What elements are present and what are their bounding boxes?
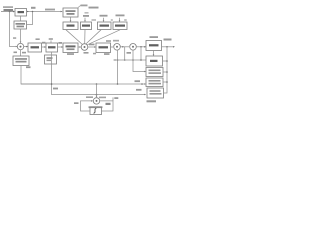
wire arrow into TC: [119, 18, 121, 21]
box R2: [146, 56, 163, 66]
wire tick above loop corner: [112, 97, 114, 101]
box M1: [28, 43, 42, 52]
wire TB diagonal to S2: [86, 30, 101, 44]
wire M1 to M2: [42, 46, 46, 48]
wire S2 to M4: [88, 46, 96, 48]
box LF loop filter: [63, 8, 78, 17]
wire input arrow: [1, 11, 14, 13]
wire loop back into S5: [81, 101, 93, 111]
box R3b: [146, 78, 163, 87]
wire M4 to S3: [111, 46, 114, 48]
wire S5 right loop down: [100, 101, 113, 111]
box M3: [63, 43, 78, 53]
wire left tap down to summer1: [10, 12, 17, 47]
box R1 loop filter digital: [146, 41, 162, 51]
node label above M1: [36, 38, 40, 40]
summer S2: [81, 44, 88, 51]
node junction y: [32, 11, 34, 13]
box TC: [113, 22, 127, 30]
box TB: [98, 22, 112, 30]
wire arrow into TB: [103, 18, 105, 21]
node label: digital input text: [3, 6, 13, 11]
node label under diagonal: [106, 40, 111, 42]
wire S1 to M1: [24, 46, 28, 48]
node label under S5: [89, 106, 103, 108]
node label between M1 M2: [42, 42, 46, 44]
wire IN2 bottom to summer1: [20, 29, 22, 43]
wire TA down to S2: [84, 30, 86, 44]
summer S5: [93, 98, 99, 104]
summer S3: [114, 44, 121, 51]
wire bus A: [21, 83, 145, 85]
box R4: [147, 88, 164, 98]
node label y: [31, 7, 36, 9]
wire IN1 output to loop filter: [27, 11, 63, 13]
wire bus A tap down to S5: [96, 84, 98, 97]
summer S4: [130, 44, 137, 51]
wire IN2 out up to y node: [27, 12, 33, 25]
node label minus near vertical: [13, 37, 16, 39]
wire R1 output: [162, 46, 175, 48]
wire S4 down to R3: [133, 50, 145, 71]
wire S3 down to bus A: [117, 50, 119, 84]
box VCO: [63, 22, 78, 30]
node junction on input: [9, 11, 11, 13]
box integrator: [90, 107, 102, 115]
wire VCO diagonal to S2: [66, 30, 82, 45]
wire S3 to S4: [120, 46, 129, 48]
node label digital: [89, 7, 99, 9]
wire node down to bus60: [140, 47, 142, 60]
wire IN1 to IN2: [20, 16, 22, 21]
box R3: [146, 68, 163, 77]
node label near R3b: [135, 80, 141, 82]
node label between M2 M3: [58, 42, 62, 44]
box B1 sampling counter: [13, 56, 29, 66]
wire M2 down to bus B: [52, 52, 146, 95]
node label under M4: [93, 53, 96, 55]
node label under counter: [26, 66, 31, 68]
box IN1 modulator: [15, 9, 27, 17]
summer S1: [17, 43, 23, 49]
wire arrow into TA: [84, 18, 86, 21]
wire bus60: [114, 59, 147, 61]
box M4: [96, 43, 111, 53]
box IN2 phase block: [14, 21, 27, 29]
node label under M3: [67, 53, 74, 55]
wire M2 to M3: [58, 46, 63, 48]
wire R1 down to R2: [153, 51, 155, 56]
box TA: [81, 22, 92, 30]
wire counter down to bus A: [21, 66, 50, 85]
node label under R4: [147, 100, 157, 102]
node annotation LF top right: [78, 5, 82, 8]
wire S4 to R1: [136, 46, 146, 48]
wire LF down to VCO: [70, 17, 72, 21]
wire M3 to S2: [78, 46, 81, 48]
node label above M2: [49, 38, 53, 40]
node label analog: [45, 9, 55, 11]
wire S1 bottom to counter box: [20, 50, 22, 56]
box M2: [46, 43, 58, 52]
wire right rail: [164, 47, 168, 93]
box M2b: [45, 55, 57, 64]
wire TC diagonal to S2: [87, 30, 120, 45]
wire tap down between S3 S4: [124, 47, 126, 60]
